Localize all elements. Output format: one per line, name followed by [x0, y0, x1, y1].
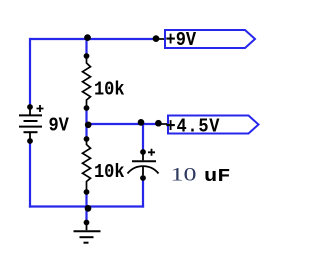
- junction node: top rail / +9V flag connection: [153, 35, 160, 42]
- capacitor C1 10uF polarized: [128, 149, 159, 181]
- +4.5V net flag: [168, 116, 259, 134]
- wire middle rail to +4.5V flag lead: [87, 123, 161, 125]
- wire capacitor branch lower (bottom rail up to C1 -): [142, 178, 144, 208]
- svg-text:9V: 9V: [49, 116, 69, 137]
- svg-text:10k: 10k: [94, 162, 125, 183]
- svg-text:10: 10: [171, 165, 197, 186]
- +4.5V net flag lead: [158, 123, 169, 125]
- junction node: bottom rail / ground: [85, 205, 92, 212]
- wire capacitor branch upper (middle rail down to C1 +): [142, 124, 144, 152]
- resistor R1 10k: [83, 53, 91, 111]
- svg-text:uF: uF: [204, 167, 231, 187]
- wire left vertical upper (top rail to battery +): [29, 38, 31, 107]
- wire R1 bottom pin to middle rail to R2 top pin: [85, 108, 87, 139]
- battery V1 9V: [19, 104, 44, 144]
- ground: [74, 220, 101, 243]
- junction node: middle rail / +4.5V flag connection: [155, 120, 162, 127]
- junction node: middle rail / capacitor branch: [138, 119, 145, 126]
- junction node: top rail / R1 column: [84, 34, 91, 41]
- +9V net flag lead: [156, 38, 167, 40]
- wire R2 bottom pin to bottom rail: [85, 192, 87, 207]
- wire left vertical lower (battery - to bottom rail): [29, 141, 31, 208]
- svg-text:+4.5V: +4.5V: [166, 117, 220, 138]
- wire R1 top pin to top rail: [85, 39, 87, 56]
- svg-text:+9V: +9V: [166, 30, 197, 51]
- wire top rail from left corner to +9V flag lead: [30, 38, 157, 40]
- svg-text:10k: 10k: [94, 80, 125, 101]
- junction node: middle rail / R1-R2 column: [85, 121, 92, 128]
- +9V net flag: [165, 30, 255, 48]
- resistor R2 10k: [83, 136, 91, 195]
- wire bottom rail: [29, 205, 144, 207]
- wire ground stub: [85, 207, 87, 223]
